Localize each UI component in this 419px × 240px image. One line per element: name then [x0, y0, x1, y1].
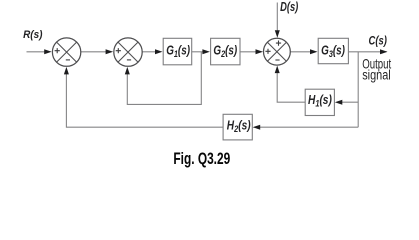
svg-text:Fig. Q3.29: Fig. Q3.29	[173, 150, 230, 169]
svg-text:signal: signal	[362, 67, 391, 83]
svg-text:H1(s): H1(s)	[308, 93, 332, 109]
svg-text:G3(s): G3(s)	[321, 44, 345, 59]
svg-text:C(s): C(s)	[369, 35, 388, 48]
svg-text:D(s): D(s)	[280, 1, 298, 15]
svg-text:G2(s): G2(s)	[213, 44, 237, 59]
svg-text:G1(s): G1(s)	[166, 44, 190, 59]
svg-text:H2(s): H2(s)	[227, 118, 251, 134]
svg-text:R(s): R(s)	[23, 29, 43, 42]
